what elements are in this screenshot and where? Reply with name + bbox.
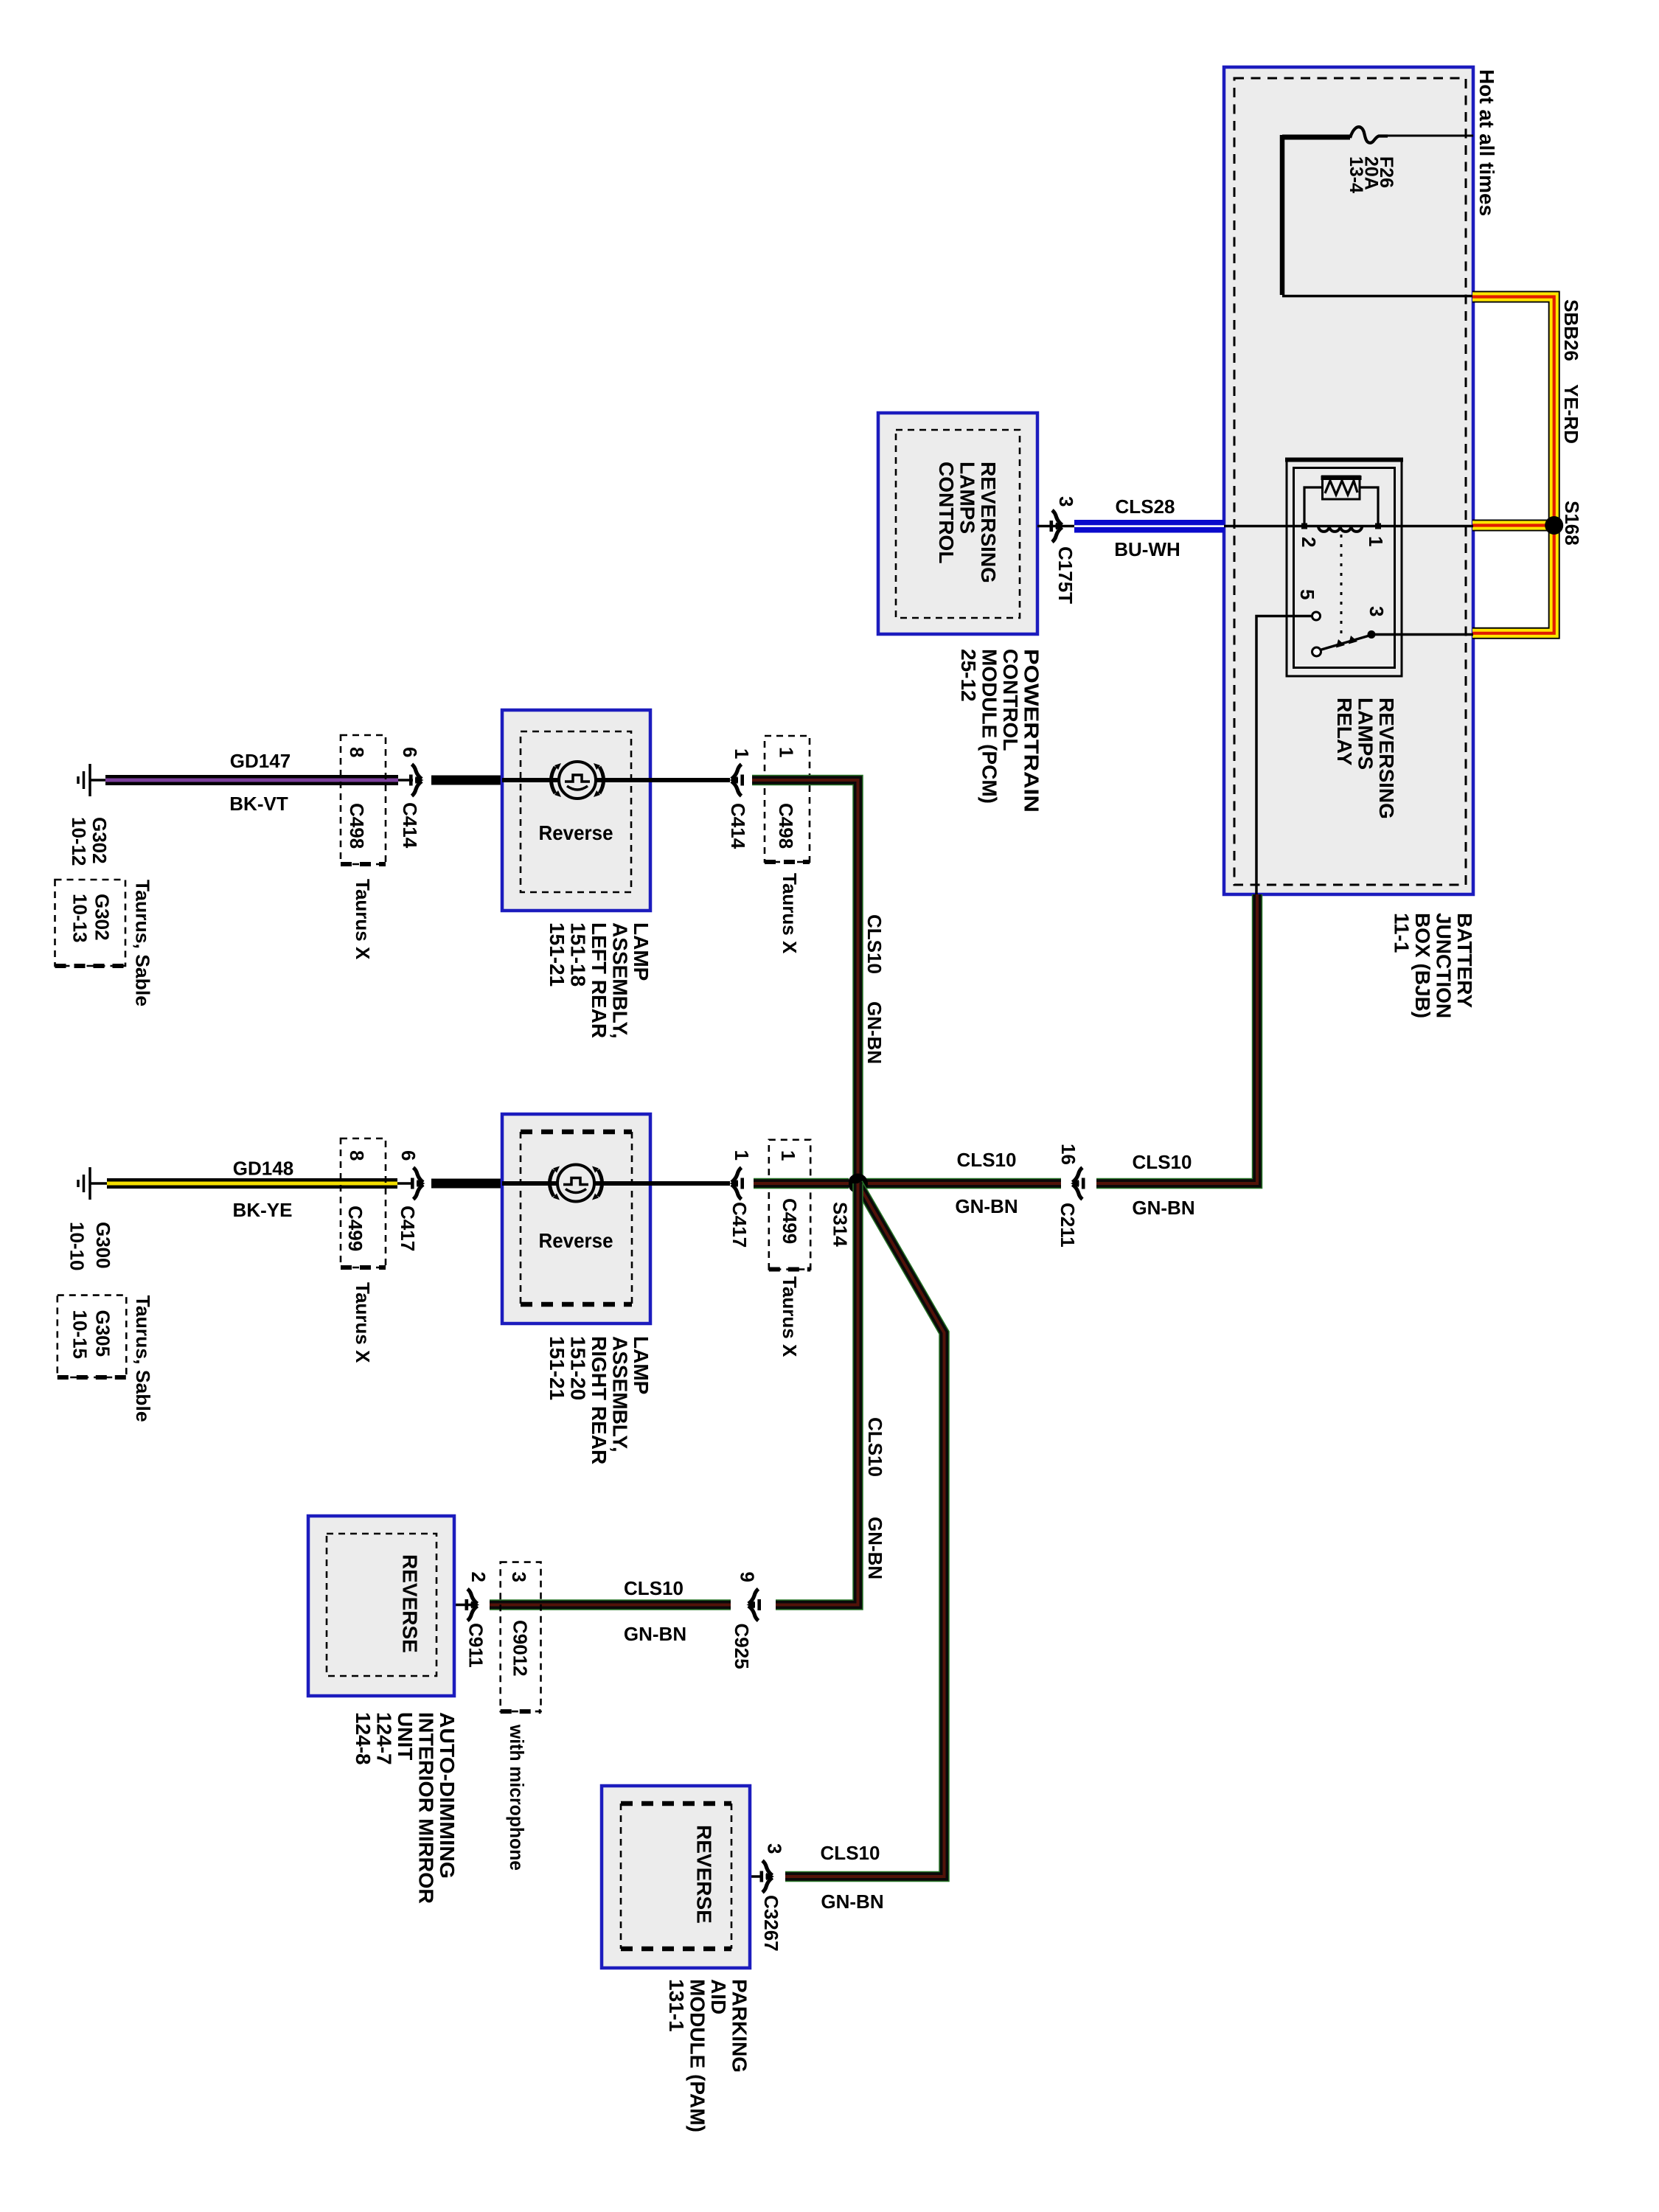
svg-text:C499: C499 bbox=[779, 1198, 801, 1244]
connector box C499 pin 8 (Taurus X) bbox=[341, 1138, 386, 1267]
svg-text:PARKING: PARKING bbox=[728, 1979, 751, 2073]
lamp right rear inner dashed (bold top/bottom) bbox=[521, 1132, 632, 1304]
svg-text:8: 8 bbox=[346, 1150, 368, 1161]
fuse element squiggle bbox=[1350, 127, 1388, 143]
svg-text:G305: G305 bbox=[92, 1310, 114, 1357]
svg-text:POWERTRAIN: POWERTRAIN bbox=[1020, 649, 1043, 813]
svg-text:1: 1 bbox=[777, 1150, 799, 1161]
svg-text:REVERSE: REVERSE bbox=[399, 1554, 422, 1653]
svg-text:10-13: 10-13 bbox=[69, 894, 91, 943]
wire GD148 BK-YE bbox=[107, 1178, 397, 1189]
svg-text:151-21: 151-21 bbox=[546, 922, 568, 987]
svg-text:124-7: 124-7 bbox=[373, 1712, 396, 1765]
svg-text:SBB26: SBB26 bbox=[1560, 299, 1582, 361]
ground G300 bbox=[78, 1167, 108, 1200]
connector C211 arrow (tip left) bbox=[1071, 1168, 1085, 1200]
svg-text:BOX (BJB): BOX (BJB) bbox=[1411, 913, 1434, 1018]
wire SBB26 YE-RD loop outside BJB bbox=[1472, 297, 1583, 633]
connector box C499 pin 1 (Taurus X) bbox=[769, 1140, 810, 1270]
SBB26 stub to S168 bbox=[1472, 520, 1552, 532]
svg-text:C925: C925 bbox=[731, 1624, 753, 1669]
relay coil arcs bbox=[1318, 526, 1362, 532]
svg-text:11-1: 11-1 bbox=[1391, 913, 1413, 953]
svg-text:GN-BN: GN-BN bbox=[624, 1623, 686, 1645]
wire CLS10 GN-BN: C211 to S314 bbox=[858, 1178, 1062, 1189]
relay pin3 wire to SBB26 bbox=[1373, 633, 1473, 636]
svg-text:1: 1 bbox=[776, 747, 798, 757]
svg-text:LAMP: LAMP bbox=[630, 922, 653, 981]
wire GD147 BK-VT bbox=[105, 775, 398, 785]
svg-text:BK-VT: BK-VT bbox=[229, 793, 288, 815]
svg-text:JUNCTION: JUNCTION bbox=[1433, 913, 1455, 1018]
relay outer rect thick top edge bbox=[1285, 458, 1403, 462]
svg-text:CONTROL: CONTROL bbox=[999, 649, 1022, 751]
wire CLS10 GN-BN: S314 down to mirror row bbox=[776, 1183, 858, 1605]
battery junction box (BJB) body bbox=[1224, 67, 1473, 894]
SBB26 main run (top, right, bottom) bbox=[1472, 297, 1554, 633]
fuse thick lead (top horizontal in page) bbox=[1282, 135, 1350, 140]
PAM inner dashed (bold top/bottom) bbox=[621, 1804, 731, 1949]
svg-text:CLS10: CLS10 bbox=[1133, 1151, 1192, 1173]
svg-text:Taurus X: Taurus X bbox=[779, 873, 801, 954]
relay resistor zigzag bbox=[1325, 481, 1357, 495]
svg-text:AUTO-DIMMING: AUTO-DIMMING bbox=[436, 1712, 459, 1879]
svg-text:13-4: 13-4 bbox=[1346, 156, 1366, 193]
svg-text:1: 1 bbox=[731, 748, 753, 759]
svg-text:C417: C417 bbox=[728, 1202, 751, 1248]
svg-text:YE-RD: YE-RD bbox=[1560, 384, 1582, 444]
svg-text:GD147: GD147 bbox=[230, 750, 291, 772]
svg-text:GN-BN: GN-BN bbox=[955, 1195, 1018, 1217]
svg-text:C175T: C175T bbox=[1054, 546, 1077, 604]
svg-text:Reverse: Reverse bbox=[539, 821, 613, 844]
wire fuse to SBB26 top bbox=[1282, 295, 1473, 298]
fuse wire down bbox=[1280, 135, 1285, 295]
relay outer rect bbox=[1287, 459, 1402, 676]
svg-text:G302: G302 bbox=[88, 817, 111, 864]
svg-text:BK-YE: BK-YE bbox=[233, 1199, 293, 1221]
svg-text:6: 6 bbox=[397, 1150, 420, 1161]
svg-text:10-12: 10-12 bbox=[68, 817, 90, 866]
wire PCM to connector bbox=[1037, 525, 1074, 528]
svg-text:CLS10: CLS10 bbox=[821, 1842, 880, 1864]
relay resistor leads bbox=[1304, 487, 1378, 526]
svg-text:LAMP: LAMP bbox=[630, 1336, 653, 1394]
svg-text:Taurus, Sable: Taurus, Sable bbox=[132, 880, 154, 1006]
svg-text:REVERSE: REVERSE bbox=[693, 1825, 716, 1924]
svg-text:Taurus, Sable: Taurus, Sable bbox=[132, 1295, 154, 1422]
reverse bulb (right rear) bbox=[550, 1165, 602, 1202]
splice S314 bbox=[848, 1174, 868, 1194]
svg-text:3: 3 bbox=[1055, 496, 1077, 507]
svg-text:ASSEMBLY,: ASSEMBLY, bbox=[609, 922, 632, 1039]
svg-text:CLS28: CLS28 bbox=[1116, 495, 1175, 518]
svg-text:ASSEMBLY,: ASSEMBLY, bbox=[609, 1336, 632, 1453]
wire through lamp bbox=[502, 1181, 650, 1186]
svg-text:CLS10: CLS10 bbox=[864, 1417, 886, 1477]
relay coil line pin2-pin1 bbox=[1224, 525, 1473, 528]
svg-text:LAMPS: LAMPS bbox=[956, 462, 979, 534]
svg-text:151-21: 151-21 bbox=[546, 1336, 568, 1400]
svg-text:RIGHT REAR: RIGHT REAR bbox=[588, 1336, 611, 1464]
connector C417 pin 6 arrow bbox=[397, 1182, 413, 1185]
connector box C9012 pin 3 (with microphone) bbox=[501, 1562, 541, 1712]
svg-text:C9012: C9012 bbox=[509, 1620, 532, 1677]
relay switch arm arrowheads bbox=[1336, 639, 1345, 648]
svg-text:C498: C498 bbox=[775, 803, 797, 849]
svg-text:2: 2 bbox=[1298, 537, 1320, 547]
svg-text:3: 3 bbox=[1366, 606, 1388, 616]
svg-text:REVERSING: REVERSING bbox=[977, 462, 1000, 583]
svg-text:10-15: 10-15 bbox=[69, 1310, 91, 1360]
svg-text:Taurus X: Taurus X bbox=[352, 1282, 374, 1363]
svg-text:1: 1 bbox=[1365, 536, 1387, 546]
svg-text:with microphone: with microphone bbox=[506, 1724, 528, 1871]
relay pin5 wire to BJB exit bbox=[1256, 616, 1312, 895]
svg-text:9: 9 bbox=[737, 1572, 759, 1582]
svg-text:GN-BN: GN-BN bbox=[821, 1891, 883, 1913]
connector C175T arrow bbox=[1050, 510, 1065, 542]
svg-text:1: 1 bbox=[731, 1150, 753, 1161]
ground G302 bbox=[78, 764, 108, 796]
svg-text:CLS10: CLS10 bbox=[863, 914, 886, 974]
svg-text:2: 2 bbox=[467, 1572, 490, 1582]
svg-text:RELAY: RELAY bbox=[1333, 698, 1356, 766]
svg-text:C911: C911 bbox=[465, 1623, 487, 1668]
svg-text:C498: C498 bbox=[346, 803, 368, 849]
connector C414 pin 6 arrow bbox=[398, 779, 413, 782]
svg-text:3: 3 bbox=[764, 1843, 786, 1854]
svg-text:Reverse: Reverse bbox=[539, 1229, 613, 1252]
svg-text:GD148: GD148 bbox=[233, 1158, 293, 1180]
mirror inner dashed bbox=[327, 1534, 437, 1676]
powertrain control module (PCM) box bbox=[878, 413, 1037, 634]
svg-text:5: 5 bbox=[1296, 589, 1318, 599]
parking aid module (PAM) box bbox=[602, 1786, 750, 1968]
svg-text:BATTERY: BATTERY bbox=[1453, 913, 1476, 1008]
relay junction pads bbox=[1301, 524, 1307, 529]
svg-text:BU-WH: BU-WH bbox=[1114, 538, 1180, 560]
wire CLS10 GN-BN: lamp row to S314 (trunk) bbox=[752, 780, 858, 1183]
connector box C498 pin 8 (Taurus X) bbox=[341, 735, 386, 864]
svg-text:C499: C499 bbox=[344, 1206, 366, 1251]
relay switch pivot circle bbox=[1312, 647, 1321, 656]
svg-text:G302: G302 bbox=[91, 894, 114, 941]
svg-text:C417: C417 bbox=[397, 1206, 419, 1251]
svg-text:151-20: 151-20 bbox=[567, 1336, 590, 1400]
relay resistor box bbox=[1323, 476, 1360, 499]
wire heavy C417 to S314 bbox=[754, 1178, 849, 1189]
svg-text:AID: AID bbox=[707, 1979, 730, 2014]
PCM inner dashed border bbox=[896, 430, 1020, 618]
auto-dimming interior mirror unit box bbox=[308, 1516, 454, 1696]
svg-text:S168: S168 bbox=[1561, 501, 1583, 546]
fuse thin lead to BJB edge bbox=[1386, 135, 1473, 137]
relay linkage dashed line bbox=[1340, 535, 1343, 639]
svg-text:Taurus X: Taurus X bbox=[779, 1276, 801, 1357]
relay switch arm bbox=[1321, 636, 1370, 650]
wire CLS28 BU-WH (blue) bbox=[1074, 520, 1224, 533]
svg-text:3: 3 bbox=[508, 1572, 530, 1582]
relay inner rect bbox=[1294, 468, 1395, 668]
svg-text:MODULE (PAM): MODULE (PAM) bbox=[686, 1979, 709, 2132]
svg-text:S314: S314 bbox=[829, 1202, 852, 1247]
svg-text:Taurus X: Taurus X bbox=[352, 879, 374, 960]
lamp assembly right rear box bbox=[502, 1114, 650, 1324]
lamp assembly left rear box bbox=[502, 710, 650, 911]
ground alt dashed box G302 10-13 bbox=[55, 880, 126, 966]
connector C925 pin 9 arrow (tip left) bbox=[747, 1589, 762, 1621]
wire heavy to lamp bbox=[431, 776, 502, 785]
lamp left rear inner dashed bbox=[521, 731, 631, 892]
connector C3267 pin 3 arrow bbox=[750, 1875, 761, 1878]
wire heavy mirror to C925 bbox=[490, 1599, 731, 1610]
svg-text:25-12: 25-12 bbox=[957, 649, 980, 702]
fuse F26 20A 13-4 bbox=[1282, 127, 1473, 296]
connector C414 pin 1 arrow bbox=[730, 765, 745, 796]
svg-text:UNIT: UNIT bbox=[394, 1712, 417, 1760]
relay pin 3 contact dot bbox=[1368, 630, 1376, 639]
svg-text:C414: C414 bbox=[727, 803, 749, 849]
reverse bulb (left rear) bbox=[552, 762, 604, 799]
svg-text:INTERIOR MIRROR: INTERIOR MIRROR bbox=[415, 1712, 438, 1904]
connector C417 pin 1 arrow bbox=[730, 1168, 745, 1200]
wire heavy to lamp bbox=[431, 1179, 502, 1189]
connector C911 pin 2 arrow bbox=[465, 1589, 480, 1621]
svg-text:MODULE (PCM): MODULE (PCM) bbox=[978, 649, 1001, 804]
svg-text:10-10: 10-10 bbox=[66, 1222, 88, 1271]
svg-text:C414: C414 bbox=[399, 802, 421, 849]
svg-text:LAMPS: LAMPS bbox=[1354, 698, 1377, 770]
svg-text:REVERSING: REVERSING bbox=[1375, 698, 1398, 819]
svg-text:151-18: 151-18 bbox=[567, 922, 590, 987]
relay pin 5 contact circle bbox=[1312, 612, 1321, 620]
svg-text:LEFT REAR: LEFT REAR bbox=[588, 922, 611, 1038]
wire lamp to connector bbox=[650, 778, 730, 782]
svg-text:C3267: C3267 bbox=[760, 1895, 782, 1952]
svg-text:6: 6 bbox=[399, 747, 421, 757]
wire lamp to connector bbox=[650, 1181, 730, 1186]
svg-text:CLS10: CLS10 bbox=[957, 1149, 1017, 1171]
svg-text:Hot at all times: Hot at all times bbox=[1475, 69, 1498, 216]
ground alt dashed box G305 10-15 bbox=[58, 1295, 127, 1377]
svg-text:CLS10: CLS10 bbox=[624, 1577, 684, 1599]
svg-text:124-8: 124-8 bbox=[352, 1712, 375, 1765]
BJB inner dashed border bbox=[1234, 78, 1466, 885]
svg-text:16: 16 bbox=[1057, 1144, 1079, 1165]
connector box C498 pin 1 (Taurus X) bbox=[765, 736, 810, 862]
svg-text:GN-BN: GN-BN bbox=[864, 1517, 886, 1579]
wire mirror box to C911 bbox=[454, 1604, 472, 1607]
wire CLS10 GN-BN: S314 diagonal down to PAM bbox=[785, 1183, 945, 1877]
svg-text:GN-BN: GN-BN bbox=[863, 1001, 886, 1064]
wire CLS10 GN-BN: BJB exit down and left to C211 bbox=[1096, 894, 1257, 1183]
svg-text:131-1: 131-1 bbox=[665, 1979, 688, 2032]
svg-text:G300: G300 bbox=[92, 1222, 114, 1269]
svg-text:GN-BN: GN-BN bbox=[1132, 1197, 1194, 1219]
svg-text:8: 8 bbox=[346, 747, 368, 757]
splice S168 bbox=[1545, 516, 1563, 535]
wire through lamp bbox=[502, 778, 650, 782]
svg-text:CONTROL: CONTROL bbox=[935, 462, 958, 563]
svg-text:C211: C211 bbox=[1057, 1203, 1079, 1248]
